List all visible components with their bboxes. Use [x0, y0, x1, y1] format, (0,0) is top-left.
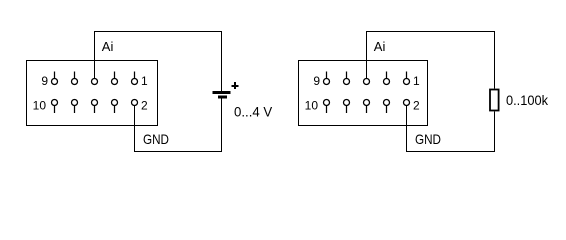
pin 6	[92, 100, 98, 114]
svg-text:GND: GND	[415, 131, 441, 147]
pin 1	[132, 72, 138, 85]
svg-text:2: 2	[141, 99, 148, 113]
svg-text:2: 2	[413, 99, 420, 113]
pin 5 (J2, Ai input)	[364, 79, 370, 85]
svg-text:9: 9	[313, 74, 320, 88]
wire: battery minus to GND pin 2	[135, 99, 222, 152]
pin 1 (J2)	[404, 72, 410, 85]
svg-text:0...4 V: 0...4 V	[234, 104, 273, 120]
connector J2 (right 10-pin block)	[299, 61, 428, 126]
pin 10	[52, 100, 58, 114]
pin 7 (J2)	[344, 72, 350, 85]
pin 8 (J2)	[344, 100, 350, 114]
resistor R1 0..100k	[490, 90, 499, 111]
svg-text:9: 9	[41, 74, 48, 88]
svg-text:Ai: Ai	[374, 39, 386, 54]
svg-text:1: 1	[141, 74, 148, 88]
pin 3 (J2)	[384, 72, 390, 85]
wire: Ai pin to potentiometer (J2)	[367, 32, 495, 89]
battery V1 positive plate	[213, 91, 231, 94]
svg-text:GND: GND	[143, 131, 169, 147]
svg-text:Ai: Ai	[102, 39, 114, 54]
pin 3	[112, 72, 118, 85]
pin 9	[52, 72, 58, 85]
svg-text:10: 10	[33, 99, 47, 113]
pin 9 (J2)	[324, 72, 330, 85]
pin 6 (J2)	[364, 100, 370, 114]
pin 4	[112, 100, 118, 114]
svg-text:1: 1	[413, 74, 420, 88]
battery plus sign	[232, 82, 239, 89]
pin 5 (Ai input)	[92, 79, 98, 85]
pin 7	[72, 72, 78, 85]
pin 4 (J2)	[384, 100, 390, 114]
wire: resistor bottom to GND pin 2 (J2)	[407, 106, 495, 152]
connector J1 (left 10-pin block)	[27, 61, 158, 126]
battery V1 negative plate	[218, 96, 227, 99]
pin 10 (J2)	[324, 100, 330, 114]
pin 8	[72, 100, 78, 114]
svg-text:0..100k: 0..100k	[506, 92, 549, 108]
wire: Ai pin to voltage source (+)	[95, 32, 222, 92]
pin 2 (GND)	[132, 100, 138, 106]
svg-text:10: 10	[305, 99, 319, 113]
pin 2 (J2, GND)	[404, 100, 410, 106]
